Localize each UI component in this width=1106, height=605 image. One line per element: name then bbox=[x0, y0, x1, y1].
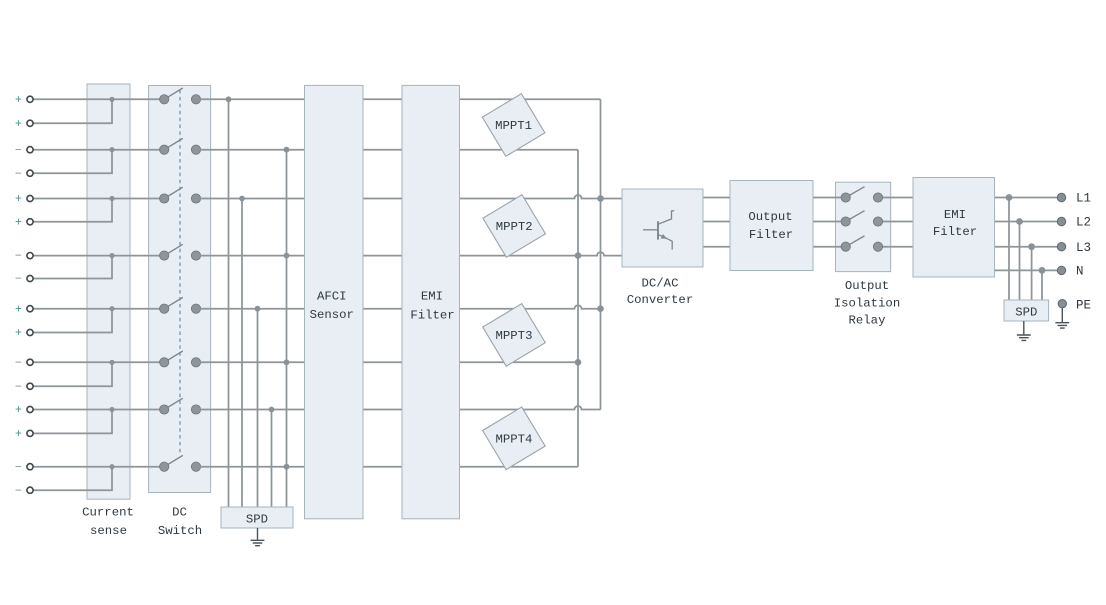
junction PV1 merge bbox=[109, 97, 114, 102]
svg-text:−: − bbox=[15, 273, 22, 286]
svg-text:+: + bbox=[15, 327, 22, 340]
wire PV8 AFCI to EMI bbox=[363, 466, 403, 468]
svg-text:PE: PE bbox=[1076, 298, 1091, 312]
switch S8 right pole bbox=[191, 462, 200, 471]
wire output filter L1 to relay bbox=[813, 197, 846, 199]
relay K2 right pole bbox=[873, 217, 882, 226]
wire PV6 input A bbox=[33, 361, 164, 363]
terminal PV2 A bbox=[27, 147, 33, 153]
svg-text:+: + bbox=[15, 94, 22, 107]
svg-text:sense: sense bbox=[90, 524, 127, 538]
switch S4 right pole bbox=[191, 251, 200, 260]
terminal PV6 A bbox=[27, 359, 33, 365]
svg-text:L2: L2 bbox=[1076, 216, 1091, 230]
wire PV2- to DC- bus bbox=[460, 149, 578, 151]
junction minus bus row 4 bbox=[284, 253, 290, 259]
wire PV5 AFCI to EMI bbox=[363, 308, 403, 310]
wire relay L3 to EMI filter bbox=[878, 246, 913, 248]
svg-text:−: − bbox=[15, 461, 22, 474]
relay K1 right pole bbox=[873, 193, 882, 202]
MPPT3 block bbox=[483, 304, 546, 367]
switch S4 left pole bbox=[160, 251, 169, 260]
terminal PV8 B bbox=[27, 487, 33, 493]
wire PV7 input A bbox=[33, 409, 164, 411]
junction DC- bus row6 bbox=[575, 359, 582, 366]
output filter block bbox=[730, 181, 813, 271]
terminal PV1 A bbox=[27, 96, 33, 102]
switch S5 blade bbox=[164, 297, 183, 308]
switch S1 left pole bbox=[160, 95, 169, 104]
relay K3 blade bbox=[846, 236, 865, 247]
svg-text:−: − bbox=[15, 485, 22, 498]
wire PV4 input B bbox=[33, 256, 112, 279]
junction L3 tap bbox=[1028, 243, 1035, 250]
svg-text:DC: DC bbox=[172, 506, 187, 520]
junction SPD tap PV1+ bbox=[226, 96, 232, 102]
switch S1 blade bbox=[164, 88, 183, 99]
ground (AC SPD) bbox=[1017, 321, 1031, 340]
wire PV1 input B bbox=[33, 99, 112, 123]
wire L2 tap to AC SPD bbox=[1019, 222, 1021, 301]
wire PV3 input B bbox=[33, 199, 112, 222]
svg-text:Output: Output bbox=[748, 210, 792, 224]
MPPT2 block bbox=[483, 195, 546, 258]
wire EMI filter L3 to terminal bbox=[995, 246, 1058, 248]
svg-text:+: + bbox=[15, 303, 22, 316]
relay K2 blade bbox=[846, 211, 865, 222]
wire EMI filter N to terminal bbox=[995, 269, 1058, 271]
wire PV1 to AFCI bbox=[196, 98, 305, 100]
svg-text:SPD: SPD bbox=[1015, 305, 1037, 319]
SPD block (AC side) bbox=[1004, 300, 1049, 321]
wire PV6 to AFCI bbox=[196, 361, 305, 363]
wire PV4 to AFCI bbox=[196, 255, 305, 257]
junction PV3 merge bbox=[109, 196, 114, 201]
DC switch gang link (dashed) bbox=[179, 90, 181, 454]
wire PV5+ to DC+ bus bbox=[460, 305, 601, 309]
ground (DC SPD) bbox=[251, 528, 265, 546]
junction DC- bus row4 bbox=[575, 252, 582, 259]
switch S7 left pole bbox=[160, 405, 169, 414]
wire PV7+ to DC+ bus bbox=[460, 406, 601, 409]
junction minus bus row 2 bbox=[284, 147, 290, 153]
wire PV4 AFCI to EMI bbox=[363, 255, 403, 257]
relay K2 left pole bbox=[841, 217, 850, 226]
svg-text:MPPT1: MPPT1 bbox=[495, 119, 532, 133]
wire PV6 AFCI to EMI bbox=[363, 361, 403, 363]
svg-text:Filter: Filter bbox=[749, 228, 793, 242]
junction PV6 merge bbox=[109, 360, 114, 365]
DC switch block bbox=[149, 86, 211, 493]
terminal PE bbox=[1058, 300, 1066, 308]
switch S5 right pole bbox=[191, 304, 200, 313]
svg-text:Current: Current bbox=[82, 506, 134, 520]
wire converter AC L3 to output filter bbox=[703, 246, 730, 248]
wire PV1 AFCI to EMI bbox=[363, 98, 403, 100]
wire PV3+ to converter DC+ input bbox=[460, 195, 622, 199]
wire PV2 input A bbox=[33, 149, 164, 151]
wire PV6- to DC- bus bbox=[460, 361, 578, 363]
wire PV7 to AFCI bbox=[196, 409, 305, 411]
switch S8 left pole bbox=[160, 462, 169, 471]
junction PV2 merge bbox=[109, 147, 114, 152]
wire output filter L2 to relay bbox=[813, 221, 846, 223]
junction PV7 merge bbox=[109, 407, 114, 412]
wire relay L2 to EMI filter bbox=[878, 221, 913, 223]
svg-text:+: + bbox=[15, 404, 22, 417]
wire relay L1 to EMI filter bbox=[878, 197, 913, 199]
transistor Q1 (converter icon) bbox=[643, 211, 674, 250]
switch S2 right pole bbox=[191, 145, 200, 154]
svg-text:−: − bbox=[15, 357, 22, 370]
wire PV1+ to DC+ bus bbox=[460, 98, 601, 100]
switch S4 blade bbox=[164, 244, 183, 255]
terminal PV1 B bbox=[27, 120, 33, 126]
svg-text:Switch: Switch bbox=[158, 524, 202, 538]
svg-text:MPPT2: MPPT2 bbox=[496, 220, 533, 234]
wire PV3 input A bbox=[33, 198, 164, 200]
wire PV5 input A bbox=[33, 308, 164, 310]
wire PV8 to AFCI bbox=[196, 466, 305, 468]
terminal PV6 B bbox=[27, 383, 33, 389]
wire L3 tap to AC SPD bbox=[1031, 247, 1033, 301]
switch S7 blade bbox=[164, 398, 183, 409]
junction PV5 merge bbox=[109, 306, 114, 311]
terminal PV8 A bbox=[27, 464, 33, 470]
svg-text:+: + bbox=[15, 428, 22, 441]
terminal N bbox=[1057, 266, 1065, 274]
relay K3 right pole bbox=[873, 242, 882, 251]
junction SPD tap PV3+ bbox=[239, 196, 245, 202]
junction SPD tap PV7+ bbox=[269, 407, 275, 413]
AFCI sensor block bbox=[305, 85, 364, 518]
switch S6 right pole bbox=[191, 358, 200, 367]
MPPT4 block bbox=[483, 407, 546, 470]
output isolation relay block bbox=[836, 182, 891, 271]
terminal PV5 A bbox=[27, 306, 33, 312]
svg-text:Sensor: Sensor bbox=[310, 308, 354, 322]
wire PV4 input A bbox=[33, 255, 164, 257]
svg-text:DC/AC: DC/AC bbox=[642, 276, 679, 290]
junction minus bus row 6 bbox=[284, 359, 290, 365]
switch S1 right pole bbox=[191, 95, 200, 104]
junction N tap bbox=[1039, 267, 1046, 274]
DC/AC converter block bbox=[622, 189, 703, 267]
terminal PV3 B bbox=[27, 219, 33, 225]
switch S8 blade bbox=[164, 455, 183, 466]
junction DC+ bus row5 bbox=[597, 305, 604, 312]
svg-text:N: N bbox=[1076, 265, 1084, 279]
svg-text:Relay: Relay bbox=[849, 314, 886, 328]
wire PV2 AFCI to EMI bbox=[363, 149, 403, 151]
wire PV3 AFCI to EMI bbox=[363, 198, 403, 200]
svg-text:Filter: Filter bbox=[410, 309, 454, 323]
junction minus bus row 8 bbox=[284, 464, 290, 470]
svg-text:Filter: Filter bbox=[933, 225, 977, 239]
wire SPD tap from PV7+ bbox=[271, 410, 273, 508]
svg-text:MPPT4: MPPT4 bbox=[495, 433, 532, 447]
svg-text:−: − bbox=[15, 144, 22, 157]
wire PV7 input B bbox=[33, 410, 112, 434]
relay K3 left pole bbox=[841, 242, 850, 251]
wire PV8- to DC- bus bbox=[460, 466, 578, 468]
wire PV8 input B bbox=[33, 467, 112, 491]
svg-text:EMI: EMI bbox=[421, 290, 443, 304]
svg-text:L1: L1 bbox=[1076, 192, 1091, 206]
switch S5 left pole bbox=[160, 304, 169, 313]
wire SPD tap from PV3+ bbox=[241, 199, 243, 508]
wire SPD tap from PV5+ bbox=[257, 309, 259, 507]
svg-text:Output: Output bbox=[845, 279, 889, 293]
svg-text:+: + bbox=[15, 118, 22, 131]
wire DC+ bus bbox=[600, 99, 602, 409]
svg-text:MPPT3: MPPT3 bbox=[496, 329, 533, 343]
svg-text:−: − bbox=[15, 250, 22, 263]
switch S6 blade bbox=[164, 351, 183, 362]
wire PV5 input B bbox=[33, 309, 112, 333]
switch S3 right pole bbox=[191, 194, 200, 203]
wire PV5 to AFCI bbox=[196, 308, 305, 310]
wire PV4- to converter DC- input bbox=[460, 252, 622, 255]
wire EMI filter L2 to terminal bbox=[995, 221, 1058, 223]
switch S3 left pole bbox=[160, 194, 169, 203]
svg-text:+: + bbox=[15, 193, 22, 206]
svg-text:−: − bbox=[15, 168, 22, 181]
junction SPD tap PV5+ bbox=[255, 306, 261, 312]
wire PV8 input A bbox=[33, 466, 164, 468]
relay K1 blade bbox=[846, 187, 865, 198]
terminal PV5 B bbox=[27, 329, 33, 335]
terminal PV2 B bbox=[27, 170, 33, 176]
EMI filter block (AC side) bbox=[913, 178, 995, 278]
svg-text:SPD: SPD bbox=[246, 513, 268, 527]
junction L1 tap bbox=[1006, 194, 1013, 201]
wire PV6 input B bbox=[33, 362, 112, 386]
MPPT1 block bbox=[482, 94, 545, 157]
wire SPD tap from PV1+ bbox=[228, 99, 230, 507]
wire converter AC L2 to output filter bbox=[703, 221, 730, 223]
wire L1 tap to AC SPD bbox=[1008, 198, 1010, 301]
ground (PE) bbox=[1055, 308, 1069, 328]
SPD block (DC side) bbox=[221, 507, 293, 528]
svg-text:L3: L3 bbox=[1076, 241, 1091, 255]
switch S7 right pole bbox=[191, 405, 200, 414]
wire EMI filter L1 to terminal bbox=[995, 197, 1058, 199]
switch S3 blade bbox=[164, 187, 183, 198]
wire PV2 input B bbox=[33, 150, 112, 174]
terminal L1 bbox=[1057, 193, 1065, 201]
svg-text:Converter: Converter bbox=[627, 293, 693, 307]
junction PV8 merge bbox=[109, 464, 114, 469]
svg-text:+: + bbox=[15, 216, 22, 229]
terminal L2 bbox=[1057, 217, 1065, 225]
wire SPD tap minus bus bbox=[286, 150, 288, 507]
junction DC+ bus row3 bbox=[597, 195, 604, 202]
wire PV2 to AFCI bbox=[196, 149, 305, 151]
switch S2 blade bbox=[164, 138, 183, 149]
wire converter AC L1 to output filter bbox=[703, 197, 730, 199]
junction PV4 merge bbox=[109, 253, 114, 258]
wire N tap to AC SPD bbox=[1041, 270, 1043, 300]
terminal PV4 A bbox=[27, 253, 33, 259]
terminal PV4 B bbox=[27, 275, 33, 281]
terminal PV3 A bbox=[27, 195, 33, 201]
wire DC- bus bbox=[577, 150, 579, 467]
relay K1 left pole bbox=[841, 193, 850, 202]
svg-text:−: − bbox=[15, 381, 22, 394]
switch S2 left pole bbox=[160, 145, 169, 154]
wire PV7 AFCI to EMI bbox=[363, 409, 403, 411]
junction L2 tap bbox=[1016, 218, 1023, 225]
terminal L3 bbox=[1057, 243, 1065, 251]
current sense block bbox=[87, 84, 130, 499]
switch S6 left pole bbox=[160, 358, 169, 367]
wire PV1 input A bbox=[33, 98, 164, 100]
terminal PV7 A bbox=[27, 406, 33, 412]
wire output filter L3 to relay bbox=[813, 246, 846, 248]
svg-text:AFCI: AFCI bbox=[317, 290, 347, 304]
EMI filter block (DC side) bbox=[402, 85, 460, 518]
svg-text:EMI: EMI bbox=[944, 208, 966, 222]
svg-text:Isolation: Isolation bbox=[834, 296, 900, 310]
terminal PV7 B bbox=[27, 430, 33, 436]
wire PV3 to AFCI bbox=[196, 198, 305, 200]
